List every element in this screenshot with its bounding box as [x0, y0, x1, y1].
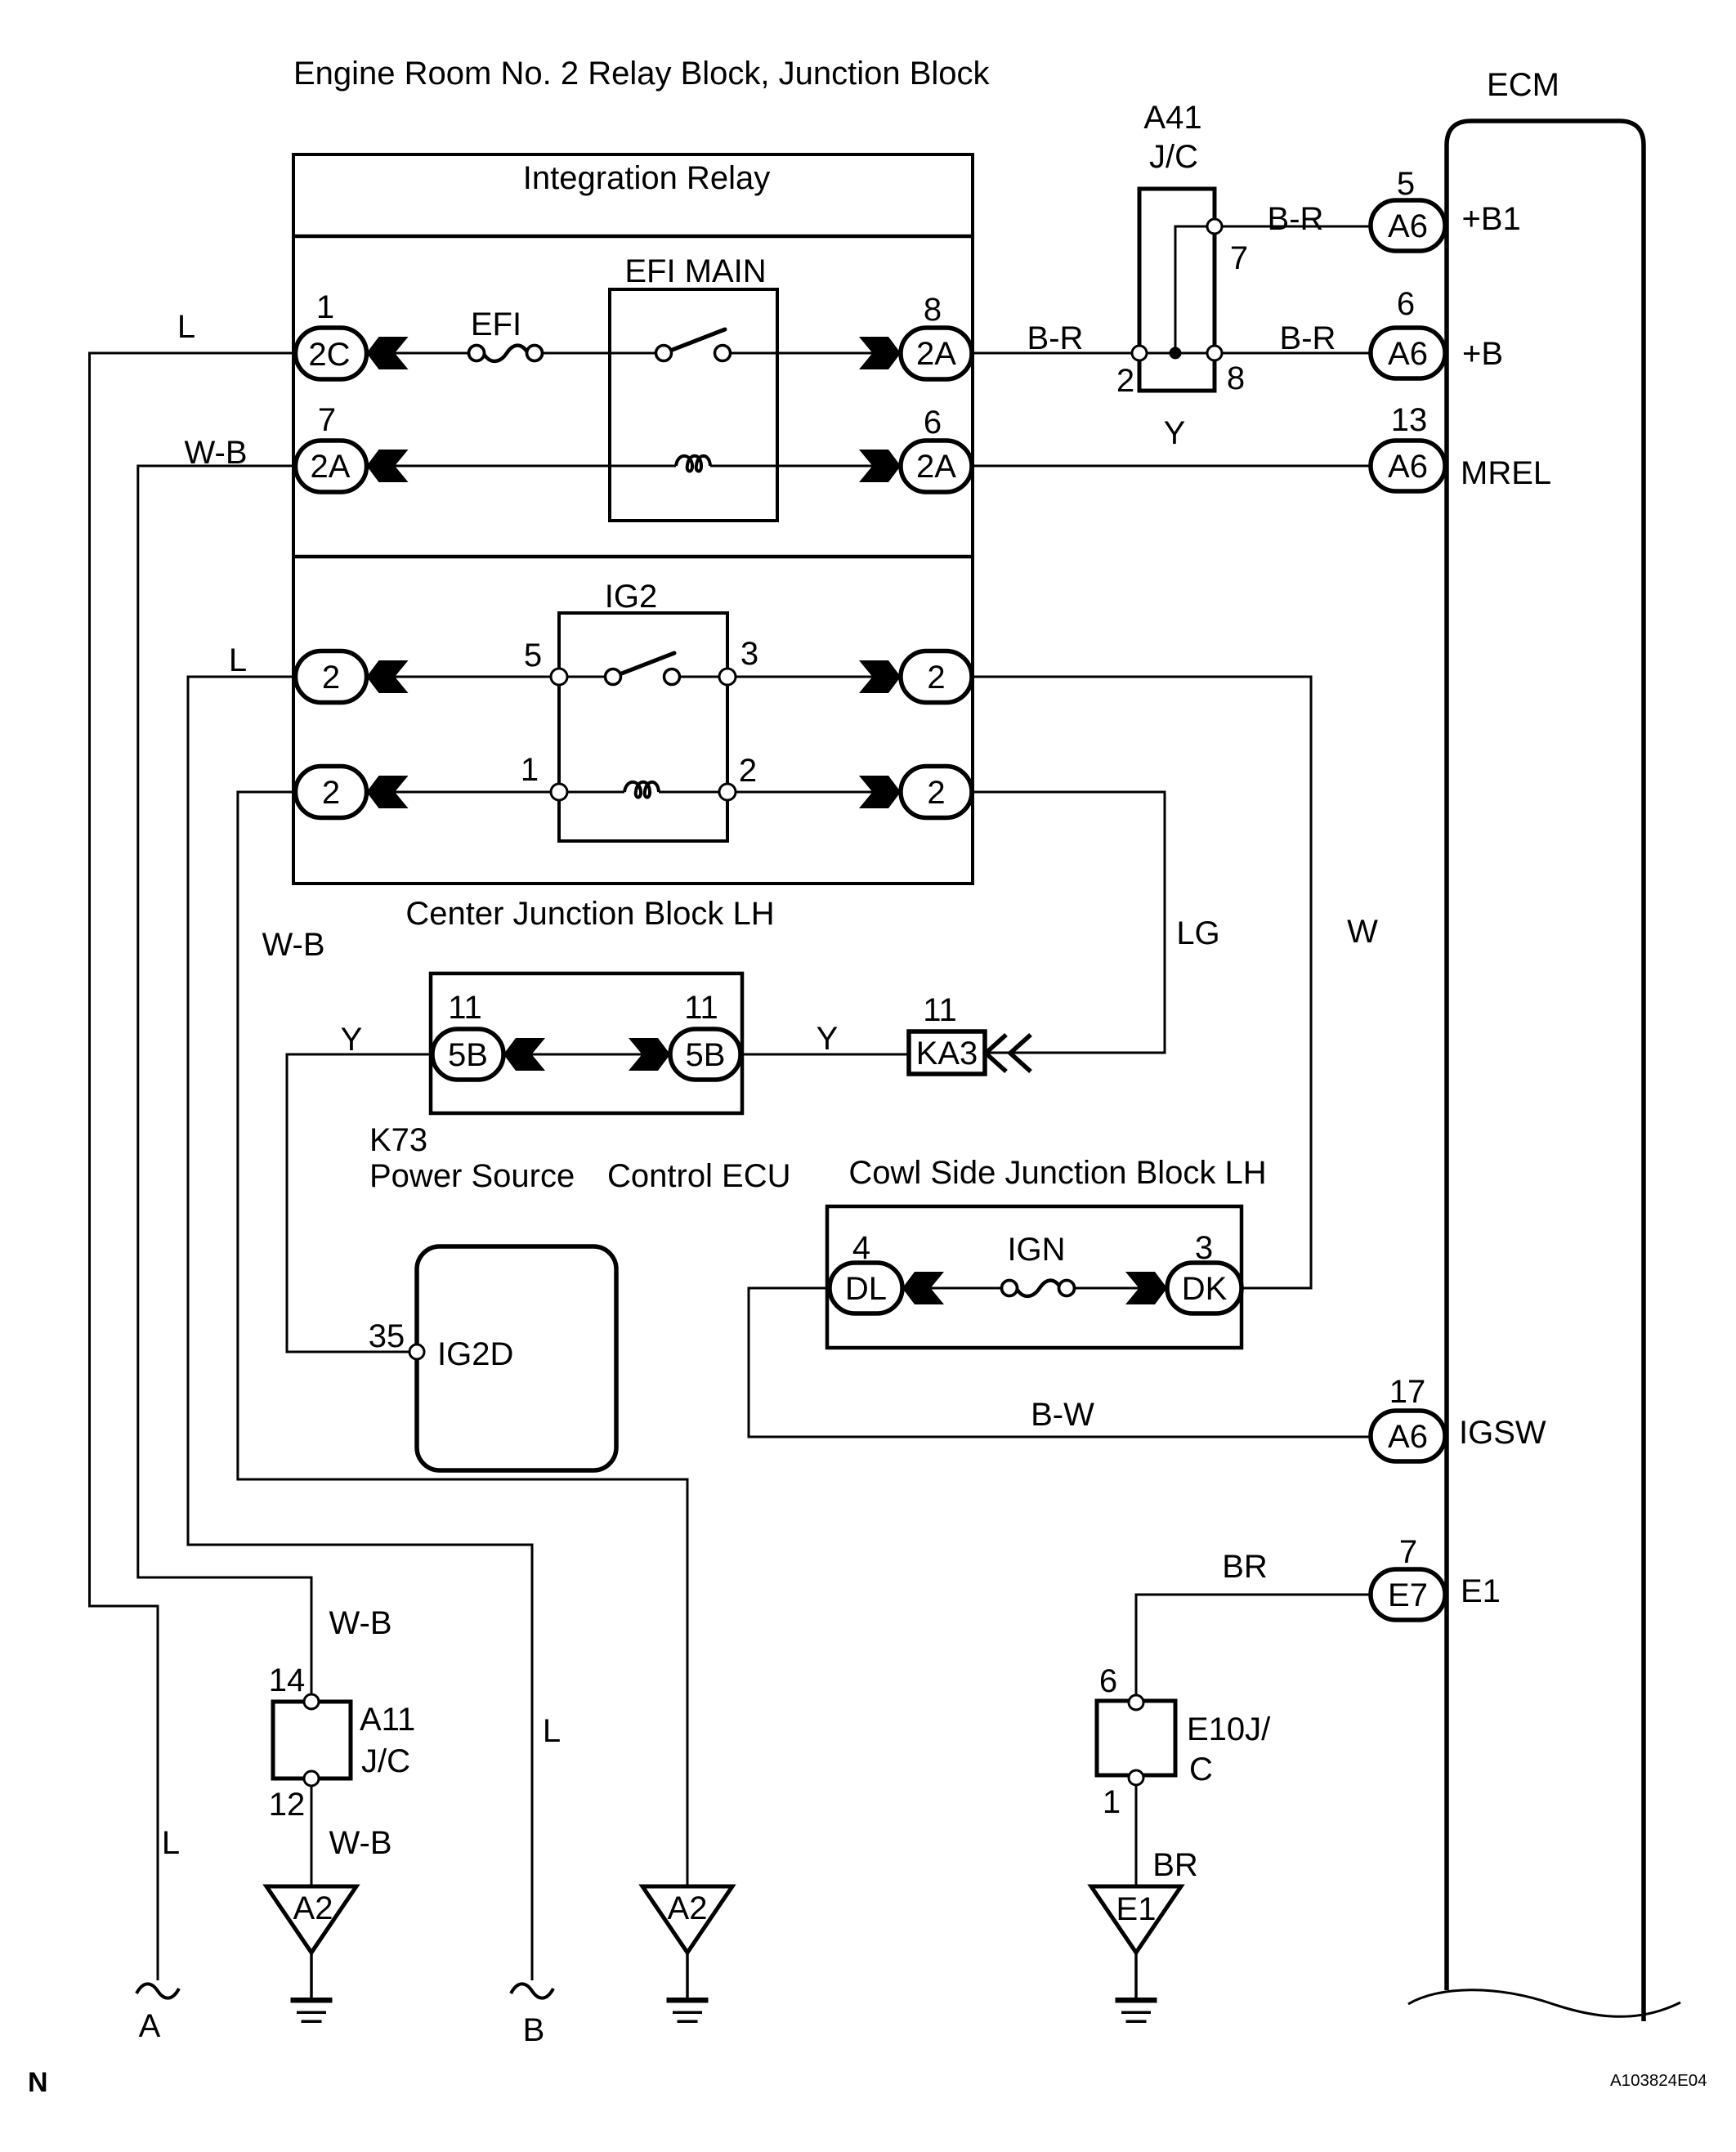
- svg-text:W-B: W-B: [262, 927, 324, 963]
- svg-text:7: 7: [1399, 1534, 1417, 1570]
- svg-text:E10J/: E10J/: [1187, 1711, 1271, 1747]
- svg-text:Cowl Side Junction Block LH: Cowl Side Junction Block LH: [848, 1155, 1266, 1191]
- svg-text:Y: Y: [341, 1022, 363, 1058]
- svg-text:11: 11: [923, 992, 957, 1028]
- svg-text:J/C: J/C: [361, 1743, 410, 1779]
- svg-text:LG: LG: [1176, 915, 1219, 951]
- svg-text:5B: 5B: [686, 1037, 726, 1073]
- svg-text:8: 8: [1227, 360, 1245, 396]
- svg-text:A6: A6: [1388, 208, 1428, 244]
- svg-text:BR: BR: [1222, 1549, 1268, 1585]
- svg-text:A41: A41: [1143, 100, 1201, 136]
- svg-text:E1: E1: [1116, 1891, 1157, 1927]
- svg-text:DK: DK: [1182, 1271, 1228, 1307]
- svg-text:1: 1: [1103, 1784, 1121, 1820]
- svg-text:7: 7: [1230, 240, 1248, 276]
- svg-text:W-B: W-B: [329, 1605, 391, 1641]
- svg-text:K73: K73: [369, 1122, 427, 1158]
- svg-text:IGSW: IGSW: [1459, 1415, 1546, 1451]
- svg-text:DL: DL: [845, 1271, 887, 1307]
- svg-text:B: B: [523, 2012, 545, 2048]
- svg-text:B-R: B-R: [1027, 320, 1084, 356]
- svg-text:A2: A2: [668, 1890, 708, 1926]
- svg-text:E1: E1: [1461, 1573, 1501, 1609]
- svg-text:EFI MAIN: EFI MAIN: [624, 253, 766, 289]
- svg-text:8: 8: [924, 292, 942, 328]
- svg-text:14: 14: [269, 1662, 306, 1698]
- svg-text:2A: 2A: [916, 336, 956, 372]
- svg-text:2A: 2A: [916, 449, 956, 485]
- svg-text:3: 3: [740, 636, 758, 672]
- svg-text:A6: A6: [1388, 336, 1428, 372]
- svg-text:A103824E04: A103824E04: [1610, 2071, 1707, 2090]
- svg-text:Center Junction Block LH: Center Junction Block LH: [405, 896, 774, 932]
- svg-text:IGN: IGN: [1007, 1232, 1065, 1268]
- svg-text:IG2: IG2: [605, 579, 657, 615]
- svg-text:Y: Y: [817, 1021, 839, 1057]
- svg-text:BR: BR: [1152, 1847, 1198, 1883]
- svg-text:B-W: B-W: [1031, 1397, 1094, 1433]
- svg-text:J/C: J/C: [1149, 139, 1198, 175]
- svg-text:A2: A2: [293, 1890, 333, 1926]
- svg-text:KA3: KA3: [916, 1036, 978, 1072]
- svg-text:11: 11: [448, 990, 482, 1026]
- svg-text:13: 13: [1391, 402, 1428, 438]
- svg-text:1: 1: [521, 752, 539, 788]
- svg-text:L: L: [229, 642, 247, 678]
- svg-text:Control ECU: Control ECU: [607, 1158, 791, 1194]
- svg-text:EFI: EFI: [471, 306, 521, 342]
- svg-text:C: C: [1189, 1752, 1213, 1787]
- svg-text:ECM: ECM: [1487, 67, 1559, 103]
- svg-text:17: 17: [1389, 1374, 1426, 1410]
- svg-text:L: L: [543, 1713, 561, 1749]
- svg-text:5: 5: [524, 638, 542, 673]
- svg-text:IG2D: IG2D: [437, 1336, 513, 1372]
- svg-text:2: 2: [927, 660, 945, 696]
- svg-text:2A: 2A: [311, 449, 351, 485]
- svg-text:B-R: B-R: [1280, 320, 1336, 356]
- svg-text:5B: 5B: [448, 1037, 488, 1073]
- svg-text:A: A: [139, 2008, 161, 2044]
- svg-text:A6: A6: [1388, 449, 1428, 485]
- svg-text:2: 2: [322, 775, 340, 811]
- svg-text:B-R: B-R: [1268, 201, 1324, 237]
- svg-text:Integration Relay: Integration Relay: [523, 160, 770, 196]
- svg-text:Engine Room No. 2 Relay Block,: Engine Room No. 2 Relay Block, Junction …: [293, 56, 991, 92]
- svg-text:L: L: [162, 1825, 180, 1861]
- svg-text:35: 35: [369, 1318, 405, 1354]
- svg-text:N: N: [28, 2067, 48, 2098]
- svg-text:Y: Y: [1164, 415, 1186, 451]
- svg-text:1: 1: [316, 289, 334, 325]
- svg-text:7: 7: [318, 402, 336, 438]
- svg-text:+B1: +B1: [1462, 201, 1521, 237]
- svg-text:3: 3: [1195, 1230, 1213, 1266]
- svg-text:W-B: W-B: [184, 435, 247, 471]
- svg-text:A11: A11: [360, 1702, 415, 1738]
- svg-text:4: 4: [852, 1230, 870, 1266]
- svg-text:2: 2: [739, 753, 757, 789]
- svg-text:2: 2: [322, 660, 340, 696]
- svg-text:5: 5: [1397, 166, 1415, 202]
- svg-text:2: 2: [927, 775, 945, 811]
- svg-text:E7: E7: [1388, 1577, 1428, 1613]
- svg-text:L: L: [177, 309, 195, 345]
- svg-text:6: 6: [1397, 286, 1415, 322]
- svg-text:A6: A6: [1388, 1419, 1428, 1455]
- svg-text:MREL: MREL: [1461, 455, 1551, 491]
- svg-text:6: 6: [924, 405, 942, 441]
- svg-text:6: 6: [1099, 1663, 1117, 1699]
- svg-text:+B: +B: [1462, 336, 1503, 372]
- svg-text:12: 12: [269, 1787, 306, 1823]
- svg-text:2C: 2C: [308, 337, 350, 373]
- svg-text:2: 2: [1116, 363, 1134, 399]
- svg-text:11: 11: [684, 990, 718, 1026]
- svg-text:W-B: W-B: [329, 1825, 391, 1861]
- svg-text:Power Source: Power Source: [369, 1158, 575, 1194]
- svg-text:W: W: [1347, 914, 1378, 950]
